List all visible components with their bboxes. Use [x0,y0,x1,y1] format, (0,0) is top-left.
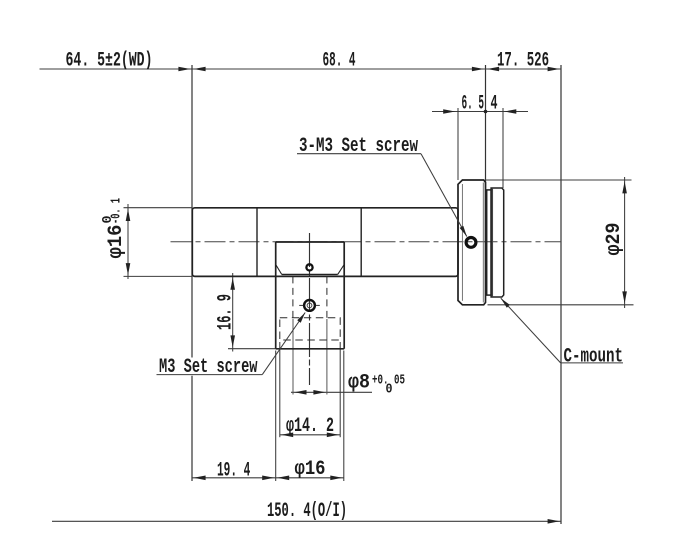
wire: 19.4 and phi16 bottom dimension line [192,477,344,479]
node: junction dot at 6.5/4 [484,110,488,114]
clamp block and mount block left edge [275,242,277,349]
clamp block top edge [276,241,345,243]
node: arrow 64.5 right [178,67,190,72]
node: arrow phi14.2 right [327,433,339,438]
C-mount thread ring [491,188,504,297]
wire: dimension line 150.4 O/I [52,520,561,522]
leader C-mount diagonal [501,298,561,363]
leader 3-M3 underline [297,153,421,155]
svg-text:19. 4: 19. 4 [217,460,250,483]
node: arrow 16.9 down [230,335,235,347]
node: arrow phi14.2 left [281,433,293,438]
svg-text:6. 5: 6. 5 [462,93,485,116]
svg-text:16. 9: 16. 9 [215,294,238,330]
node: arrow phi16 up [126,209,131,221]
wire: phi14.2 extension left [279,342,281,437]
wire: phi16 bottom extension left [275,351,277,482]
flange shoulder edge line [482,183,484,303]
svg-text:C-mount: C-mount [564,346,624,369]
wire: extension line at image plane x=561 [560,65,562,524]
node: arrow phi8 left [295,390,307,395]
svg-text:3-M3 Set screw: 3-M3 Set screw [299,135,418,158]
node: arrow phi29 up [622,181,627,193]
node: arrow 6.5 left [443,109,455,114]
wire: dimension line 68.4 [192,68,486,70]
leader M3 underline [157,374,263,376]
wire: phi8 dimension line [291,391,372,393]
leader M3 diagonal [262,313,305,375]
leader C-mount underline [561,362,623,364]
wire: 16.9 extension bottom [228,348,276,350]
C-mount thread left shade line [492,188,494,297]
barrel section line rear [360,208,362,277]
svg-text:64. 5±2(WD): 64. 5±2(WD) [66,50,153,73]
wire: phi16 dimension line left [127,204,129,279]
svg-text:φ16: φ16 [295,458,326,481]
flange set screw (3-M3) [466,238,476,248]
node: arrow 17.526 right [548,67,560,72]
wire: dimension line 6.5 / 4 [432,111,528,113]
flange chamfer edge line [461,184,463,301]
clamp block left chamfer [276,265,282,275]
node: leader M3 arrow [297,313,305,323]
M3 set screw right tick [316,304,320,306]
svg-text:150. 4(O/I): 150. 4(O/I) [267,500,347,523]
node: arrow 19.4 right [262,476,274,481]
wire: dimension line 17.526 [486,68,562,70]
hidden line phi8 hole right [326,276,328,317]
mount block bottom edge [276,348,345,350]
node: leader 3-M3 arrow [460,226,467,237]
barrel section line front [256,208,258,277]
clamp block inner bottom line [282,273,338,275]
M3 set screw head [304,300,315,311]
wire: phi16 extension bottom [124,275,193,277]
node: arrow 68.4 left [194,67,206,72]
M3 set screw left tick [299,304,303,306]
svg-text:17. 526: 17. 526 [497,50,549,73]
C-mount lip ring [487,190,491,295]
wire: dimension line 64.5 WD [40,68,193,70]
wire: phi16 extension top [124,207,193,209]
node: arrow 150.4 right [548,519,560,524]
svg-text:4: 4 [491,93,498,116]
node: arrow phi16b left [277,476,289,481]
svg-text:M3 Set screw: M3 Set screw [159,356,258,379]
svg-text:φ8: φ8 [348,372,370,395]
wire: extension line flange front x=458 [457,108,459,180]
node: arrow 19.4 left [194,476,206,481]
clamp set screw [306,264,312,270]
node: arrow 68.4 right [472,67,484,72]
wire: phi8 extension right [326,319,328,395]
wire: phi14.2 extension right [339,342,341,437]
wire: phi29 dimension line [624,177,626,308]
wire: extension line thread end x=503 [502,108,504,188]
leader 3-M3 diagonal [421,154,467,237]
wire: 16.9 dimension line [232,273,234,352]
wire: screw axis center line [309,233,311,385]
flange phi29 outline [458,180,486,305]
svg-text:φ16: φ16 [105,225,128,259]
node: arrow phi16b right [330,476,342,481]
svg-text:φ29: φ29 [603,223,626,256]
wire: extension line at mount face x=485.5 [485,65,487,188]
node: arrow phi16 down [126,263,131,275]
wire: phi14.2 dimension line [280,434,340,436]
hidden counterbore phi14.2 box [280,318,340,340]
svg-text:-0. 1: -0. 1 [110,198,125,224]
node: arrow 4 right [504,109,516,114]
barrel body outline [192,208,458,277]
M3 set screw inner [307,303,312,308]
wire: horizontal center line [171,241,562,243]
node: arrow 17.526 left [487,67,499,72]
wire: phi16 bottom extension right [343,351,345,482]
hidden line phi8 hole left [292,276,294,317]
node: arrow phi8 right [313,390,325,395]
clamp block and mount block right edge [343,242,345,349]
svg-text:68. 4: 68. 4 [323,50,356,73]
wire: phi29 extension bottom [488,304,634,306]
node: arrow 16.9 up [230,278,235,290]
svg-text:0: 0 [386,383,393,398]
node: leader C-mount arrow [501,298,510,308]
wire: phi29 extension top [485,179,632,181]
node: arrow phi29 down [622,291,627,303]
wire: extension line at object side x=192 [191,65,193,481]
clamp block right chamfer [338,265,345,275]
wire: phi8 extension left [292,319,294,395]
svg-text:φ14. 2: φ14. 2 [286,415,334,438]
